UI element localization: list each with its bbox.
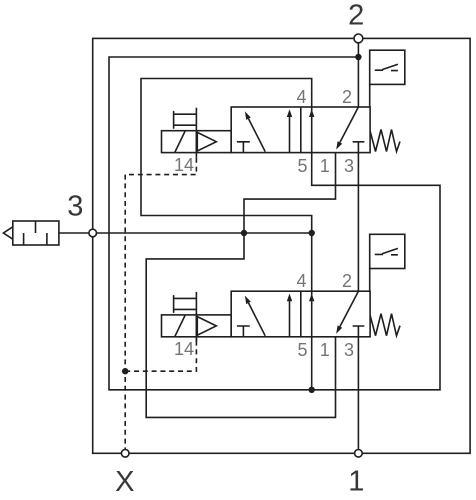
- svg-text:X: X: [115, 466, 134, 498]
- wire: pressure switch S2 stem to valve V2: [369, 269, 371, 292]
- valve V2 position divider: [300, 291, 302, 337]
- enclosure: outer assembly boundary box: [93, 38, 470, 453]
- junction: pilot X line branch: [122, 368, 128, 374]
- wire: port 2 terminal to valve V1 port 2: [357, 43, 359, 107]
- valve V1 diagonal flow arrow 2-&gt;1 (right square): [340, 107, 359, 142]
- valve V1 body (two-position valve): [231, 107, 370, 153]
- port X terminal circle: [121, 450, 129, 458]
- wire: valve V1 port 4 loop (port 4 up, left, down, right to junction, down to valve V2 port 4): [141, 79, 312, 292]
- svg-text:5: 5: [297, 340, 307, 360]
- valve V1 blocked port T (right square, port 3): [353, 142, 365, 153]
- valve V2 blocked port T (left square, port 5): [237, 326, 250, 337]
- valve V1 return spring: [370, 130, 400, 152]
- svg-text:3: 3: [344, 156, 354, 176]
- valve V2 diagonal flow arrow 1-&gt;4 (left square): [249, 303, 266, 336]
- svg-text:14: 14: [174, 339, 194, 359]
- svg-text:1: 1: [348, 466, 364, 498]
- junction: exhaust bus / port 1 wires: [241, 230, 247, 236]
- solenoid coil of pilot valve V2: [162, 315, 197, 337]
- wire: exhaust bus to port 3 terminal: [93, 232, 312, 234]
- wire: vertical 4-5 line through valve V2: [311, 291, 313, 337]
- pressure switch S2 contact symbol: [375, 248, 398, 254]
- port 3 terminal circle: [89, 229, 97, 237]
- valve V1 diagonal flow arrow 1-&gt;4 (left square): [249, 119, 266, 152]
- valve V2 flow arrowhead on 4-5 line (right square): [309, 294, 314, 302]
- pressure switch S1 box: [370, 50, 405, 84]
- wire: valve V1 port 1 down-left to exhaust bus: [244, 153, 336, 233]
- junction: bottom rail / valve V2 port 5: [309, 387, 315, 393]
- svg-text:4: 4: [296, 87, 306, 107]
- manual override of pilot valve V1: [174, 108, 197, 131]
- svg-text:14: 14: [174, 155, 194, 175]
- svg-text:1: 1: [320, 156, 330, 176]
- pilot pressure amplifier triangle V1: [196, 131, 231, 153]
- valve V2 blocked port T (right square, port 3): [353, 326, 365, 337]
- valve V2 vertical flow arrow (left square): [289, 300, 291, 337]
- port 2 terminal circle: [354, 34, 363, 43]
- valve V2 return spring: [370, 314, 400, 336]
- wire: valve V2 port 3 to port 1 terminal: [357, 337, 359, 450]
- wire: valve V2 port 14 stub (solid): [195, 337, 197, 343]
- wire: supply net from port 2 node, left side loop (2 - 109 - bottom - 440 - up - valve V1 port 5): [109, 57, 440, 390]
- pressure switch S2 box: [370, 234, 405, 268]
- svg-text:2: 2: [342, 271, 352, 291]
- svg-text:5: 5: [297, 156, 307, 176]
- manual override of pilot valve V2: [174, 292, 197, 315]
- junction: port 2 node branch: [355, 54, 361, 60]
- valve V2 body (two-position valve): [231, 291, 370, 337]
- port 1 terminal circle: [355, 450, 363, 458]
- wire: vertical 4-5 line through valve V1: [311, 107, 313, 153]
- junction: exhaust bus / valve V2 port 4: [309, 230, 315, 236]
- pilot pressure amplifier triangle V2: [196, 315, 231, 337]
- svg-text:2: 2: [348, 0, 364, 32]
- valve V1 blocked port T (left square, port 5): [237, 142, 250, 153]
- svg-text:4: 4: [296, 271, 306, 291]
- pilot port 14 stub of valve V2: [195, 337, 197, 342]
- wire: valve V1 port 3 to valve V2 port 2: [357, 153, 359, 292]
- solenoid coil of pilot valve V1: [162, 131, 197, 153]
- svg-text:3: 3: [67, 191, 83, 223]
- valve V2 diagonal flow arrow 2-&gt;1 (right square): [340, 291, 359, 326]
- wire: valve V2 port 5 drop to bottom rail: [311, 337, 313, 390]
- pressure switch S1 contact symbol: [375, 64, 398, 70]
- valve V1 vertical flow arrow (left square): [289, 116, 291, 153]
- wire: valve V2 port 1 loop from exhaust bus junction: [146, 233, 335, 417]
- wire: pressure switch S1 stem to valve V1: [369, 84, 371, 107]
- svg-text:1: 1: [320, 340, 330, 360]
- silencer on port 3: [13, 221, 59, 245]
- wire: dashed pilot branch to valve V2 port 14: [125, 343, 196, 372]
- pilot port 14 stub of valve V1: [195, 153, 197, 158]
- valve V1 position divider: [300, 107, 302, 153]
- svg-text:3: 3: [344, 340, 354, 360]
- wire: dashed pilot line X riser with branch to valve V1 port 14: [125, 158, 196, 450]
- valve V1 flow arrowhead on 4-5 line (right square): [309, 109, 314, 117]
- svg-text:2: 2: [342, 87, 352, 107]
